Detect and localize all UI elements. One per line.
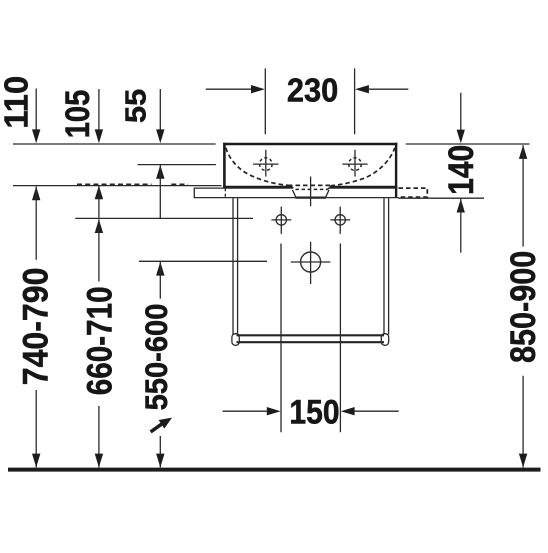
dimension 660-710 line lower bbox=[98, 406, 100, 467]
dimension 550-600 line upper bbox=[156, 262, 164, 276]
drain hole bbox=[301, 252, 321, 272]
dimension 740-790 line lower bbox=[35, 390, 37, 467]
svg-text:110: 110 bbox=[0, 76, 34, 129]
dimension 230 extension line right bbox=[354, 68, 356, 134]
console top edge right part bbox=[329, 187, 398, 189]
extension line 110-level bbox=[13, 185, 222, 187]
towel rail top tube line bbox=[237, 334, 385, 336]
extension line 55-level bbox=[138, 164, 216, 166]
mounting hole right bbox=[335, 215, 345, 225]
extension line drain level bbox=[139, 260, 267, 262]
vertical centerline of basin lower (drain) bbox=[310, 242, 312, 284]
washbasin bottom edge left part bbox=[223, 186, 291, 188]
washbasin bottom edge right part bbox=[330, 186, 398, 188]
mounting hole right centerlines bbox=[330, 219, 350, 221]
dimension 740-790 line upper bbox=[32, 186, 40, 200]
dimension 150 right arrow bbox=[354, 410, 398, 412]
washbasin top edge bbox=[223, 143, 397, 146]
dimension 230 extension line left bbox=[264, 68, 266, 134]
dimension 230 left arrow bbox=[206, 88, 252, 90]
extension line top-left (basin top level) bbox=[13, 143, 216, 145]
svg-text:150: 150 bbox=[289, 392, 339, 430]
svg-text:660-710: 660-710 bbox=[80, 286, 119, 395]
dimension 550-600 line lower bbox=[159, 436, 161, 467]
dimension 230 right arrow bbox=[369, 88, 409, 90]
hidden basin edge in console (dashed) bbox=[224, 188, 226, 197]
faucet hole left (dashed circle) bbox=[260, 158, 273, 171]
console hidden right extension (dashed box) bbox=[399, 188, 428, 197]
faucet hole left centerlines bbox=[265, 150, 267, 177]
vertical centerline of basin upper bbox=[310, 177, 312, 207]
towel rail right end cap bbox=[381, 334, 388, 346]
extension line from right mounting hole bbox=[339, 244, 341, 433]
extension line from left mounting hole bbox=[280, 244, 282, 433]
dimension 105 lower outside arrow bbox=[95, 186, 103, 200]
svg-text:105: 105 bbox=[58, 90, 97, 139]
svg-text:55: 55 bbox=[120, 89, 152, 123]
svg-text:850-900: 850-900 bbox=[504, 251, 544, 363]
dimension 55 lower outside arrow bbox=[156, 165, 164, 179]
extension line mounting-hole level bbox=[75, 217, 253, 219]
dimension 110 arrow bbox=[35, 89, 37, 136]
dimension 140 lower outside arrow bbox=[457, 199, 465, 213]
drain recess bottom edge bbox=[296, 197, 327, 199]
dimension 55 arrow bbox=[159, 89, 161, 135]
dimension 105 arrow bbox=[98, 89, 100, 135]
basin interior hidden curve right bbox=[331, 148, 395, 186]
drain recess hidden outline bbox=[291, 186, 331, 190]
console left end cap bbox=[193, 188, 195, 199]
drain direction arrow bbox=[151, 423, 163, 432]
mounting hole left centerlines bbox=[271, 219, 291, 221]
extension line top-right (basin top level) bbox=[406, 143, 530, 145]
basin interior hidden curve left bbox=[226, 148, 291, 186]
hidden level line (dashed, 105-level) bbox=[77, 183, 152, 185]
extension line console bottom right (140-level) bbox=[398, 197, 484, 199]
svg-text:550-600: 550-600 bbox=[140, 304, 174, 411]
svg-text:740-790: 740-790 bbox=[16, 268, 56, 386]
dimension 140 upper arrow bbox=[460, 93, 462, 135]
washbasin left edge bbox=[223, 143, 226, 188]
right leg bbox=[383, 198, 385, 334]
faucet hole right (dashed circle) bbox=[349, 158, 362, 171]
towel rail bottom tube line bbox=[237, 341, 385, 343]
drain recess visible outline bbox=[293, 190, 330, 198]
left leg bbox=[232, 198, 234, 334]
drain hole horizontal centerline bbox=[291, 261, 331, 263]
console top edge left part bbox=[194, 187, 292, 189]
washbasin right edge bbox=[395, 143, 397, 198]
ground line bbox=[8, 468, 541, 472]
basin interior hidden flat bottom bbox=[288, 184, 333, 186]
svg-text:230: 230 bbox=[287, 71, 338, 109]
mounting hole left bbox=[276, 215, 286, 225]
console bottom edge bbox=[194, 197, 398, 199]
faucet hole right centerlines bbox=[354, 150, 356, 177]
dimension 660-710 line upper bbox=[95, 219, 103, 233]
dimension 150 left arrow bbox=[223, 410, 268, 412]
svg-text:140: 140 bbox=[440, 145, 480, 195]
towel rail left end cap bbox=[232, 334, 239, 346]
dimension 850-900 line lower bbox=[522, 376, 524, 468]
dimension 850-900 line upper bbox=[519, 145, 527, 159]
